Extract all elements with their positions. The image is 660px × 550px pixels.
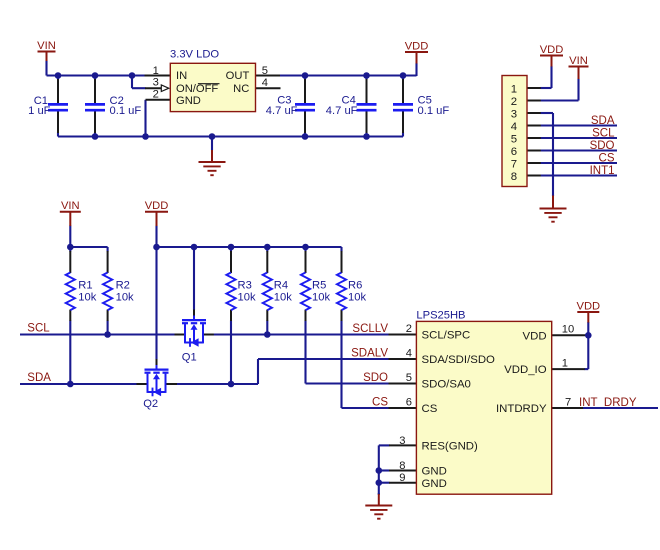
svg-text:SCL: SCL: [27, 323, 50, 335]
svg-text:10k: 10k: [274, 292, 292, 304]
svg-text:3: 3: [153, 76, 159, 88]
svg-text:Q1: Q1: [182, 352, 197, 364]
svg-text:SCLLV: SCLLV: [352, 323, 388, 335]
svg-text:VIN: VIN: [37, 40, 56, 52]
svg-text:VDD_IO: VDD_IO: [504, 364, 547, 376]
svg-text:1: 1: [153, 65, 159, 77]
svg-text:GND: GND: [176, 95, 201, 107]
svg-text:SDO: SDO: [363, 372, 388, 384]
svg-text:8: 8: [511, 171, 517, 183]
svg-text:0.1 uF: 0.1 uF: [110, 105, 142, 117]
svg-text:ON/OFF: ON/OFF: [176, 83, 218, 95]
svg-text:5: 5: [511, 133, 517, 145]
svg-text:VDD: VDD: [576, 301, 600, 313]
svg-text:4: 4: [262, 77, 268, 89]
svg-text:SDALV: SDALV: [351, 347, 388, 359]
svg-text:VDD: VDD: [540, 44, 564, 56]
svg-text:8: 8: [399, 460, 405, 472]
svg-text:SCL/SPC: SCL/SPC: [422, 329, 471, 341]
svg-text:GND: GND: [422, 478, 447, 490]
svg-text:4: 4: [406, 347, 412, 359]
svg-text:Q2: Q2: [143, 398, 158, 410]
svg-text:4: 4: [511, 121, 517, 133]
svg-text:0.1 uF: 0.1 uF: [418, 105, 450, 117]
svg-text:CS: CS: [372, 396, 388, 408]
svg-text:9: 9: [399, 472, 405, 484]
svg-text:GND: GND: [422, 466, 447, 478]
svg-text:7: 7: [511, 158, 517, 170]
svg-text:SDA: SDA: [591, 115, 615, 127]
svg-text:SDA: SDA: [27, 372, 51, 384]
svg-text:7: 7: [565, 396, 571, 408]
svg-text:CS: CS: [599, 153, 615, 165]
svg-text:10k: 10k: [78, 292, 96, 304]
svg-text:6: 6: [406, 396, 412, 408]
svg-text:VIN: VIN: [61, 200, 80, 212]
svg-text:SCL: SCL: [592, 128, 615, 140]
svg-text:5: 5: [262, 65, 268, 77]
svg-text:LPS25HB: LPS25HB: [416, 309, 465, 321]
svg-text:INT DRDY: INT DRDY: [579, 397, 637, 409]
svg-text:CS: CS: [422, 403, 438, 415]
svg-text:RES(GND): RES(GND): [422, 441, 479, 453]
svg-text:SDA/SDI/SDO: SDA/SDI/SDO: [422, 354, 496, 366]
svg-text:R2: R2: [116, 280, 130, 292]
svg-text:1: 1: [511, 83, 517, 95]
svg-text:SDO: SDO: [590, 140, 615, 152]
svg-text:VDD: VDD: [405, 41, 429, 53]
svg-text:R6: R6: [348, 280, 362, 292]
svg-text:VDD: VDD: [523, 330, 547, 342]
svg-text:3: 3: [511, 108, 517, 120]
svg-text:10: 10: [562, 324, 574, 336]
svg-text:VDD: VDD: [145, 200, 169, 212]
svg-text:2: 2: [511, 96, 517, 108]
svg-text:4.7 uF: 4.7 uF: [266, 105, 298, 117]
svg-text:3.3V LDO: 3.3V LDO: [170, 49, 219, 61]
svg-text:R1: R1: [78, 280, 92, 292]
svg-text:5: 5: [406, 372, 412, 384]
svg-text:10k: 10k: [238, 292, 256, 304]
svg-text:10k: 10k: [116, 292, 134, 304]
svg-text:SDO/SA0: SDO/SA0: [422, 378, 471, 390]
svg-text:INTDRDY: INTDRDY: [496, 403, 547, 415]
svg-text:1: 1: [562, 357, 568, 369]
svg-text:2: 2: [153, 88, 159, 100]
svg-text:10k: 10k: [348, 292, 366, 304]
svg-text:IN: IN: [176, 70, 187, 82]
svg-text:3: 3: [399, 435, 405, 447]
svg-text:VIN: VIN: [569, 55, 588, 67]
svg-text:2: 2: [406, 323, 412, 335]
svg-text:4.7 uF: 4.7 uF: [326, 105, 358, 117]
svg-text:OUT: OUT: [226, 70, 250, 82]
svg-text:6: 6: [511, 146, 517, 158]
svg-text:1 uF: 1 uF: [28, 105, 51, 117]
svg-text:10k: 10k: [312, 292, 330, 304]
svg-text:R4: R4: [274, 280, 288, 292]
svg-text:R3: R3: [238, 280, 252, 292]
svg-text:INT1: INT1: [590, 165, 615, 177]
svg-text:NC: NC: [233, 83, 249, 95]
svg-text:R5: R5: [312, 280, 326, 292]
